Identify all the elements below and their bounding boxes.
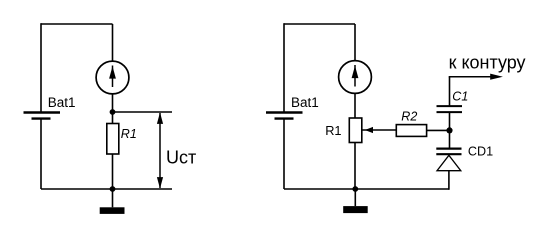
wire current source bottom lead (left circuit) [112, 94, 114, 112]
ground (left circuit) [100, 189, 125, 214]
wire right circuit bottom horizontal rail [284, 188, 449, 190]
node D (right circuit ground node) [352, 186, 358, 192]
wire right circuit left vertical (top to battery) [283, 23, 285, 112]
wiper arrow into R1 [362, 127, 397, 133]
svg-text:к контуру: к контуру [449, 53, 526, 73]
current source I1 (left circuit) [96, 61, 129, 94]
wire left circuit left vertical (top to battery) [40, 23, 42, 112]
resistor R2 [396, 125, 426, 137]
wire R1 bottom to ground node (right circuit) [354, 143, 356, 190]
svg-text:Bat1: Bat1 [48, 95, 76, 110]
wire resistor R1 to bottom node (left circuit) [112, 154, 114, 189]
ground (right circuit) [343, 189, 368, 213]
wire current source top lead (left circuit) [112, 24, 114, 61]
wire node to resistor R1 (left circuit) [112, 112, 114, 124]
svg-text:Uст: Uст [166, 147, 196, 167]
wire right circuit top horizontal [284, 23, 355, 25]
wire upper measurement tick [113, 111, 173, 113]
wire node C up to capacitor C1 [449, 113, 451, 130]
svg-text:R2: R2 [401, 110, 417, 124]
wire current source top lead (right circuit) [354, 24, 356, 61]
output arrow to resonant circuit [449, 74, 503, 80]
node A (left circuit upper node) [110, 109, 116, 115]
wire current source to potentiometer R1 (right circuit) [354, 93, 356, 118]
dimension arrow Uct (double-headed) [157, 112, 163, 188]
wire R2 to node C [427, 129, 450, 131]
svg-text:C1: C1 [452, 89, 468, 103]
wire left circuit top horizontal [41, 23, 113, 25]
wire varicap CD1 to bottom rail [448, 171, 450, 190]
svg-text:R1: R1 [325, 123, 341, 138]
battery Bat1 (right circuit) [266, 113, 303, 119]
node B (left circuit bottom node) [110, 186, 116, 192]
svg-text:R1: R1 [121, 127, 137, 141]
potentiometer R1 (right circuit) [349, 118, 362, 143]
current source I2 (right circuit) [339, 61, 372, 94]
wire node C down to varicap CD1 [449, 130, 451, 148]
varicap CD1 [436, 149, 461, 171]
battery Bat1 (left circuit) [24, 113, 61, 119]
wire left circuit bottom horizontal rail [41, 188, 172, 190]
capacitor C1 [437, 106, 463, 112]
svg-text:Bat1: Bat1 [291, 95, 319, 110]
wire battery bottom to ground rail (left circuit) [40, 119, 42, 189]
svg-text:CD1: CD1 [468, 144, 493, 158]
node C (R2 / C1 / CD1 junction) [446, 127, 452, 133]
wire C1 top plate up to output corner [449, 77, 451, 106]
resistor R1 (left circuit) [107, 124, 119, 155]
wire battery bottom to ground rail (right circuit) [283, 119, 285, 189]
